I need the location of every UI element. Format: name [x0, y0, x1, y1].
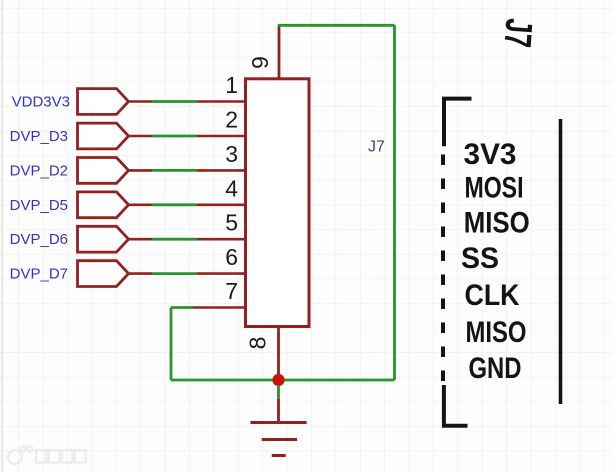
svg-text:6: 6 [225, 244, 238, 270]
wire pin3 net DVP_D2 [129, 169, 246, 172]
svg-text:MISO: MISO [464, 207, 530, 240]
wire net bottom green [171, 379, 395, 382]
annotation bracket bottom [444, 385, 468, 426]
svg-text:CLK: CLK [465, 279, 520, 312]
svg-text:SS: SS [461, 242, 499, 275]
svg-text:9: 9 [247, 56, 273, 69]
wire pin6 net DVP_D7 [129, 272, 246, 275]
annotation dashed line [441, 155, 445, 382]
junction dot [272, 374, 284, 386]
svg-text:DVP_D7: DVP_D7 [10, 266, 68, 283]
port DVP_D3 [10, 123, 129, 149]
svg-text:J7: J7 [496, 17, 540, 49]
svg-text:GND: GND [469, 352, 522, 385]
annotation right line [559, 119, 563, 404]
connector J7 body [246, 79, 310, 327]
svg-text:MISO: MISO [466, 316, 527, 349]
wire pin1 net VDD3V3 [129, 100, 246, 103]
svg-text:DVP_D3: DVP_D3 [10, 128, 68, 145]
wire pin5 net DVP_D6 [129, 238, 246, 241]
wire net left green vertical [170, 308, 173, 381]
port DVP_D6 [10, 226, 129, 252]
watermark [8, 446, 86, 464]
pin 8 stub [277, 326, 280, 380]
svg-text:DVP_D5: DVP_D5 [10, 197, 68, 214]
port DVP_D7 [10, 261, 129, 287]
svg-text:2: 2 [225, 107, 238, 133]
svg-text:4: 4 [225, 175, 238, 201]
svg-text:J7: J7 [368, 139, 385, 156]
svg-text:DVP_D2: DVP_D2 [10, 162, 68, 179]
svg-text:VDD3V3: VDD3V3 [12, 94, 70, 111]
wire net right green vertical [393, 25, 396, 380]
wire net top green [278, 24, 395, 27]
wire junction to ground green [277, 385, 280, 399]
wire pin4 net DVP_D5 [129, 204, 246, 207]
wire pin7 [171, 306, 245, 309]
port VDD3V3 [12, 89, 129, 115]
svg-text:3: 3 [225, 141, 238, 167]
svg-text:5: 5 [225, 210, 238, 236]
pin 9 stub [278, 25, 281, 79]
svg-text:7: 7 [225, 278, 238, 304]
port DVP_D5 [10, 192, 129, 218]
wire pin2 net DVP_D3 [129, 135, 246, 138]
svg-text:8: 8 [245, 337, 271, 350]
ground GND [251, 399, 307, 456]
port DVP_D2 [10, 158, 129, 184]
svg-text:3V3: 3V3 [464, 138, 517, 171]
svg-text:1: 1 [225, 72, 238, 98]
svg-text:MOSI: MOSI [465, 172, 524, 205]
svg-text:DVP_D6: DVP_D6 [10, 231, 68, 248]
annotation bracket top [444, 99, 472, 147]
